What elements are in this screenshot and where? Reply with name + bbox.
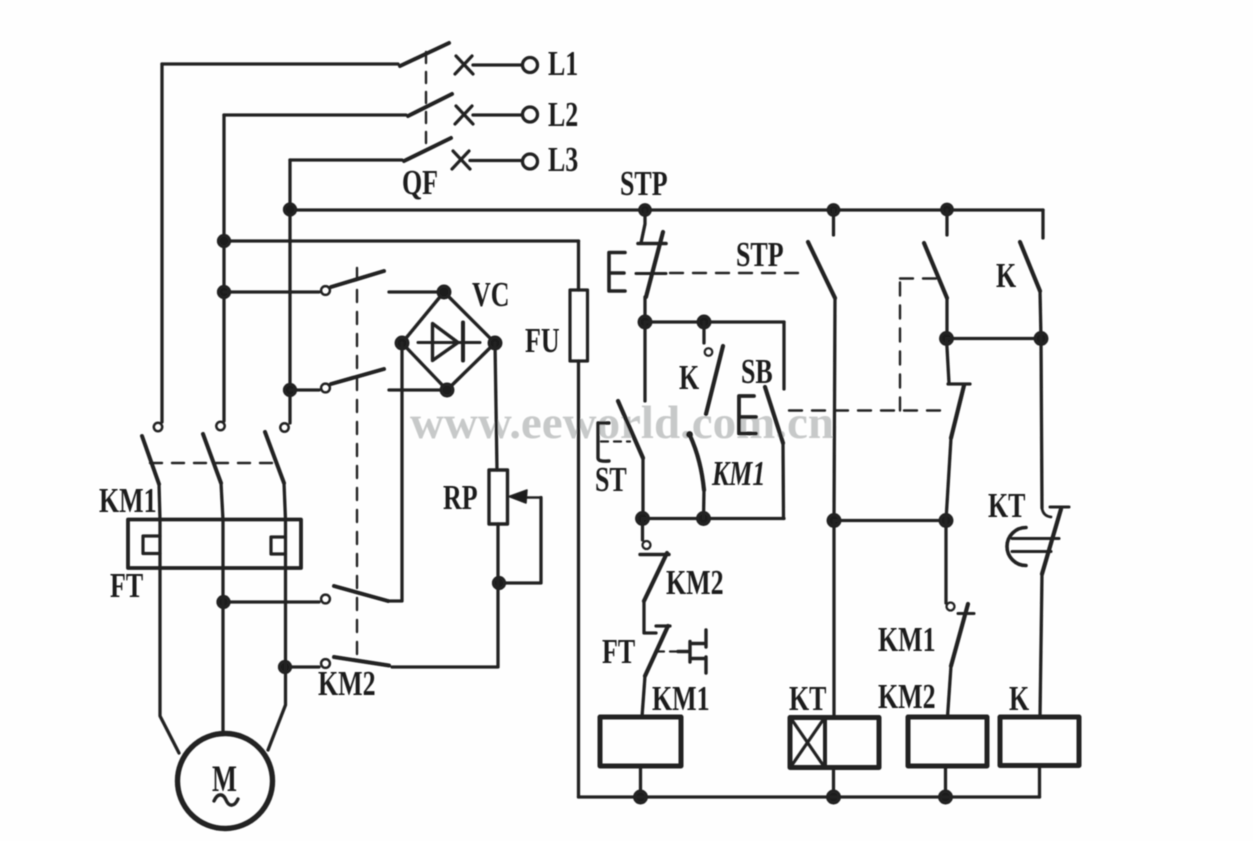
svg-text:QF: QF <box>402 163 438 202</box>
wire bus corner to K contact <box>1041 210 1044 238</box>
svg-text:KM2: KM2 <box>318 664 376 703</box>
timed contact KT tick <box>1050 506 1069 509</box>
wire pole1 to FT <box>159 484 160 520</box>
contact SB-B lower drop <box>947 339 950 384</box>
wire KT contact to K coil <box>1040 574 1042 717</box>
node VC feed1 tap <box>219 287 230 298</box>
motor tilde <box>214 795 238 805</box>
wire FU to bottom rail <box>577 361 580 797</box>
timed contact KT hook <box>1042 508 1051 517</box>
node row2 left <box>637 513 649 525</box>
node VC feed2 tap <box>285 385 296 396</box>
contactor KM2 main contact 1 terminal <box>321 286 330 295</box>
contact FT NC top bar <box>656 624 670 627</box>
wire to bridge top <box>389 290 444 293</box>
fuse FU <box>570 290 588 361</box>
contactor KM2 aux contact 1 blade <box>334 586 388 601</box>
relay contact K terminal hook <box>705 348 713 356</box>
wire aux1 to phase B <box>224 600 320 603</box>
wire L1 horizontal feed <box>162 62 398 65</box>
rectifier VC diode <box>418 341 480 344</box>
wire to bridge bottom <box>389 388 447 391</box>
wire KT coil drop <box>832 521 835 718</box>
svg-text:K: K <box>996 256 1016 295</box>
wire pole3 to FT <box>284 483 286 520</box>
contactor KM2 main contact 1 blade <box>331 271 384 287</box>
svg-text:FT: FT <box>110 566 143 605</box>
wire bottom rail <box>579 795 1040 798</box>
contact KM1 interlock tick <box>958 612 974 615</box>
contactor KM1 main pole 3 terminal hook <box>280 423 288 431</box>
thermal contact FT symbol <box>678 630 706 673</box>
wire FT to KM1 coil <box>642 676 645 717</box>
contact KM1 self-hold tip <box>686 431 693 438</box>
thermal relay FT box <box>128 520 301 569</box>
relay contact K2 blade <box>1020 242 1040 291</box>
pushbutton SB blade <box>765 387 783 443</box>
contactor KM1 main pole 3 blade <box>265 432 284 483</box>
wire FT pole2 through <box>221 520 224 568</box>
breaker QF linkage dashed <box>425 52 427 150</box>
pushbutton SB operator bracket <box>739 396 756 434</box>
wire phase C vertical <box>288 160 291 423</box>
wire K2 to join <box>1040 291 1041 339</box>
svg-text:KM2: KM2 <box>666 563 724 602</box>
svg-text:L3: L3 <box>548 140 578 179</box>
wire STP2 down <box>834 298 835 521</box>
node row3 KT <box>828 515 840 527</box>
svg-text:FU: FU <box>525 321 560 360</box>
node branch row1 left <box>639 316 651 328</box>
node rail KM2 <box>940 791 952 803</box>
contact KM1 self-hold blade <box>690 435 705 491</box>
wire L3 horizontal feed <box>290 158 402 161</box>
wire FU drop <box>577 241 580 290</box>
pushbutton STP NC tick <box>636 272 666 275</box>
wire ST drop <box>643 322 646 401</box>
wire to KM2 coil <box>948 666 952 717</box>
breaker QF pole 2 blade <box>408 94 452 116</box>
contact SB-B lower blade <box>951 386 964 439</box>
terminal circle L1 <box>523 58 538 73</box>
linkage SB dashed top arm <box>900 277 944 279</box>
wire control bus top <box>290 208 1043 211</box>
pushbutton STP drop wire <box>641 210 645 243</box>
motor M circle <box>178 734 273 829</box>
contact KM2 NC blade <box>644 553 667 601</box>
wire KM1 coil to rail <box>639 766 642 797</box>
node FU-L2 tap <box>219 236 230 247</box>
wire K-branch join horizontal <box>947 337 1042 340</box>
svg-text:KM1: KM1 <box>878 620 936 659</box>
wire VC feed2 <box>290 388 319 391</box>
wire DC right drop <box>495 343 497 470</box>
node bus STP branch <box>640 205 650 215</box>
contact KM2 NC top bar <box>640 553 669 556</box>
wire SB branch down <box>782 322 785 389</box>
svg-text:STP: STP <box>736 235 784 274</box>
potentiometer RP body <box>489 470 508 524</box>
contact KM2 NC terminal hook <box>643 541 651 549</box>
node bridge bottom <box>441 384 453 396</box>
coil KM2 <box>908 717 987 766</box>
wire L2 horizontal feed <box>224 113 406 116</box>
pushbutton STP top bar <box>638 242 666 246</box>
contact KM2 NC drop <box>641 519 644 541</box>
node row1 K branch <box>698 316 710 328</box>
wire KM1 contact to row2 <box>702 490 706 519</box>
contact KM1 interlock blade <box>951 604 968 666</box>
svg-text:M: M <box>212 759 237 801</box>
contactor KM2 aux contact 1 terminal <box>321 595 330 604</box>
wire phase A vertical <box>160 64 163 422</box>
coil KM1 <box>600 717 681 766</box>
linkage ST dashed <box>601 440 630 442</box>
wire KT coil to rail <box>832 768 835 798</box>
wire KM2-FT link <box>644 601 656 633</box>
wire FT pole3 through <box>284 520 287 568</box>
wire join to KT contact <box>1041 339 1042 509</box>
node bridge top <box>438 286 450 298</box>
linkage SB dashed horizontal <box>789 409 946 411</box>
svg-text:FT: FT <box>602 632 635 671</box>
svg-text:KT: KT <box>988 486 1026 525</box>
wire aux2 to phase C <box>285 665 319 668</box>
contact FT NC blade <box>645 626 668 676</box>
timed contact KT blade <box>1042 509 1061 574</box>
coil K <box>1000 717 1079 766</box>
pushbutton STP second blade <box>808 242 835 298</box>
contactor KM1 main pole 1 terminal hook <box>154 423 162 431</box>
relay contact K drop <box>702 322 705 343</box>
contactor KM2 aux contact 2 terminal <box>321 659 330 668</box>
contact KM1 interlock terminal hook <box>947 603 955 611</box>
node row3 KM2 <box>940 515 952 527</box>
wire L1 stub <box>473 63 521 66</box>
wire FT pole1 through <box>158 520 161 568</box>
potentiometer RP wiper arrow <box>526 496 541 498</box>
contactor KM1 linkage dashed <box>150 462 276 464</box>
wire row1 horizontal <box>645 320 784 323</box>
contactor KM2 linkage dashed <box>356 268 358 664</box>
contactor KM1 main pole 2 blade <box>203 434 221 483</box>
pushbutton STP operator bracket <box>609 253 625 292</box>
svg-text:STP: STP <box>620 164 668 203</box>
breaker QF pole 1 blade <box>400 43 449 66</box>
node aux1 tap <box>218 597 229 608</box>
wire RP bottom <box>392 524 498 667</box>
svg-text:SB: SB <box>741 352 773 391</box>
node aux2 tap <box>280 662 291 673</box>
terminal circle L2 <box>523 107 538 122</box>
svg-text:KT: KT <box>789 679 827 718</box>
svg-text:KM2: KM2 <box>878 677 936 716</box>
node K-branch join right <box>1035 333 1047 345</box>
breaker QF pole 3 blade <box>404 138 451 161</box>
switch ST operator bracket <box>598 423 609 461</box>
contactor KM2 main contact 2 terminal <box>321 384 330 393</box>
breaker QF pole 1 cross mark <box>455 56 473 74</box>
pushbutton STP blade <box>646 232 663 297</box>
contact SB-B drop <box>945 210 948 235</box>
svg-text:VC: VC <box>472 275 509 314</box>
contactor KM2 aux contact 2 blade <box>334 657 389 666</box>
node rail KT <box>828 791 840 803</box>
svg-text:KM1: KM1 <box>652 679 710 718</box>
wire row2 horizontal <box>643 517 785 520</box>
wire wiper down <box>499 498 541 584</box>
svg-text:L1: L1 <box>548 44 578 83</box>
breaker QF pole 2 cross mark <box>455 106 473 124</box>
wire L2 stub <box>473 113 521 116</box>
wire DC left drop <box>389 343 402 601</box>
rectifier VC bridge diamond <box>402 292 495 390</box>
contact SB-B upper blade <box>924 243 947 298</box>
wire STP to node <box>643 297 646 322</box>
thermal relay FT heater 2 <box>271 537 286 554</box>
contactor KM2 main contact 2 blade <box>331 369 384 384</box>
wire SB-B mid <box>945 298 948 339</box>
svg-text:K: K <box>1009 679 1029 718</box>
wire pole2 to FT <box>221 483 223 520</box>
wire phase B vertical <box>222 115 225 421</box>
node K-branch join left <box>941 333 953 345</box>
relay contact K blade <box>706 346 723 414</box>
coil KT with flag <box>790 718 879 768</box>
wire K coil to rail <box>1038 766 1041 798</box>
node rail KM1 <box>635 791 647 803</box>
wire motor lead 3 <box>268 568 286 750</box>
contactor KM1 main pole 1 blade <box>142 436 159 484</box>
svg-text:RP: RP <box>443 478 478 517</box>
node bus SB branch <box>942 204 952 214</box>
wire ST to row2 <box>641 458 644 519</box>
thermal relay FT heater 1 <box>143 536 160 554</box>
wire SB-B lower down <box>946 438 951 521</box>
svg-text:ST: ST <box>595 460 627 499</box>
svg-text:L2: L2 <box>548 95 578 134</box>
node bridge right <box>489 337 501 349</box>
switch ST blade <box>618 401 643 458</box>
wire motor lead 1 <box>160 568 179 753</box>
linkage SB dashed vertical <box>899 279 901 411</box>
svg-text:K: K <box>679 358 699 397</box>
node bus STP2 branch <box>828 205 838 215</box>
wire FU feed horizontal <box>224 239 579 242</box>
terminal circle L3 <box>523 154 538 169</box>
wire row3 horizontal <box>834 519 946 522</box>
wire KM2 coil to rail <box>944 766 947 797</box>
node bus-L3 tap <box>285 204 296 215</box>
wire L3 stub <box>470 159 522 162</box>
timed contact KT delay symbol <box>1007 528 1026 566</box>
breaker QF pole 3 cross mark <box>452 151 470 169</box>
linkage STP dashed <box>670 272 806 274</box>
contact SB-B lower top bar <box>948 382 970 385</box>
svg-text:KM1: KM1 <box>711 454 765 493</box>
contact KM1 interlock drop <box>944 521 947 604</box>
node row2 K branch <box>698 513 710 525</box>
wire SB to row2 <box>781 443 785 519</box>
node RP bottom join <box>494 578 505 589</box>
contactor KM1 main pole 2 terminal hook <box>216 422 224 430</box>
wire motor lead 2 <box>221 568 224 733</box>
pushbutton STP second drop <box>832 210 835 235</box>
linkage FT dashed <box>656 650 678 652</box>
svg-text:KM1: KM1 <box>99 481 157 520</box>
node bridge left <box>396 337 408 349</box>
wire VC feed1 <box>224 290 319 293</box>
